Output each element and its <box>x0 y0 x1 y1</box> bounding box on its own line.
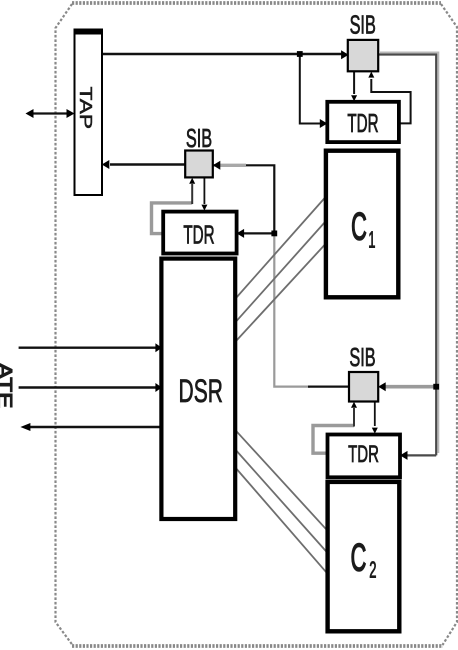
svg-text:TDR: TDR <box>347 110 378 138</box>
svg-text:1: 1 <box>368 228 375 254</box>
svg-text:C: C <box>351 535 367 580</box>
svg-text:TDR: TDR <box>348 442 379 468</box>
svg-text:SIB: SIB <box>350 9 376 39</box>
svg-text:ATE: ATE <box>0 363 16 409</box>
svg-text:SIB: SIB <box>186 123 212 153</box>
svg-text:C: C <box>351 204 367 249</box>
svg-text:DSR: DSR <box>179 372 223 409</box>
svg-text:2: 2 <box>369 558 376 584</box>
svg-text:SIB: SIB <box>349 342 375 372</box>
svg-text:TAP: TAP <box>76 87 95 129</box>
svg-text:TDR: TDR <box>183 221 214 249</box>
